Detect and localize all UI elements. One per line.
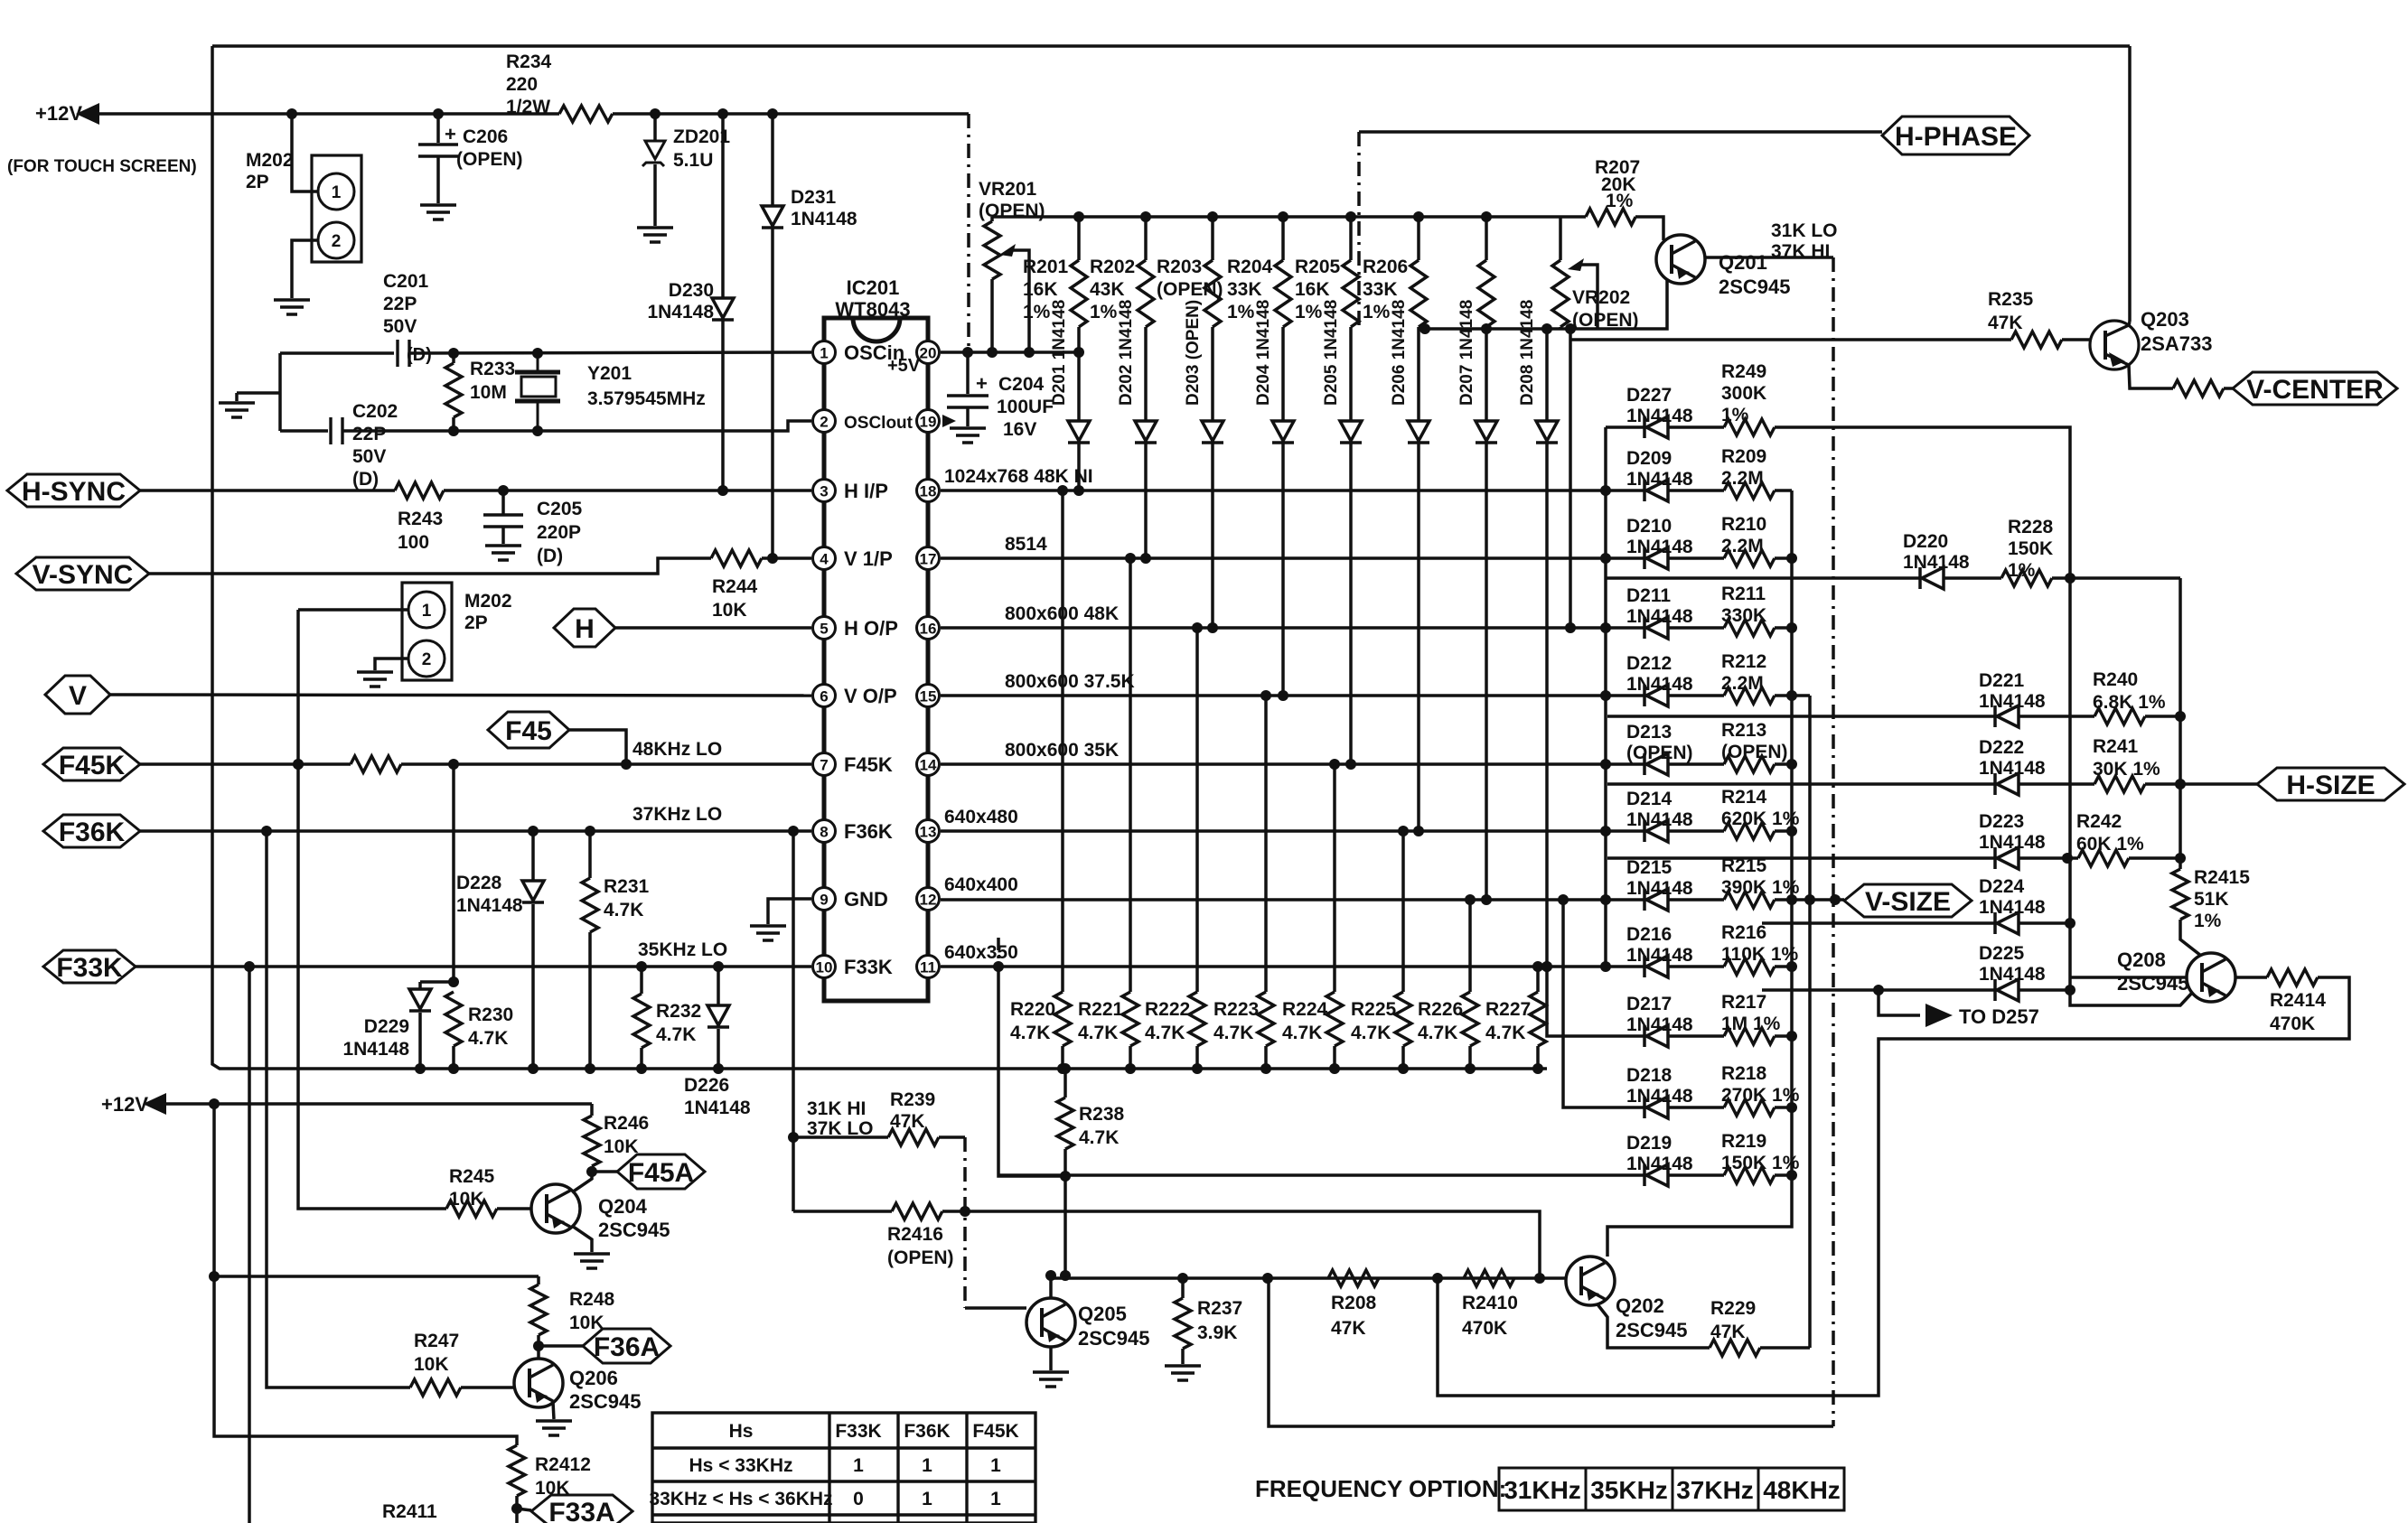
junction bbox=[1481, 323, 1492, 334]
svg-text:7: 7 bbox=[820, 757, 828, 774]
svg-text:F45K: F45K bbox=[844, 753, 893, 776]
svg-text:D227: D227 bbox=[1626, 385, 1672, 406]
wire D223 row bbox=[1607, 856, 1995, 860]
svg-text:+: + bbox=[976, 372, 988, 395]
svg-text:D226: D226 bbox=[684, 1075, 729, 1096]
svg-text:R2416: R2416 bbox=[887, 1224, 943, 1245]
table mode truth table bbox=[652, 1413, 1035, 1523]
wire R238 top bbox=[1063, 1069, 1067, 1098]
wire to H-SIZE bbox=[2145, 782, 2257, 786]
svg-text:R242: R242 bbox=[2076, 811, 2122, 832]
svg-text:1N4148: 1N4148 bbox=[1626, 606, 1693, 627]
diode D227 bbox=[1644, 416, 1668, 438]
wire R244 to pin 4 bbox=[762, 556, 811, 560]
resistor R202 bbox=[1138, 260, 1154, 327]
svg-text:R230: R230 bbox=[468, 1004, 513, 1025]
svg-text:R220: R220 bbox=[1010, 999, 1055, 1020]
junction (bus) bbox=[1532, 1063, 1543, 1074]
junction bbox=[585, 826, 595, 836]
svg-text:1N4148: 1N4148 bbox=[1903, 552, 1970, 573]
wire OSCin row left bbox=[280, 351, 394, 355]
svg-text:4.7K: 4.7K bbox=[1351, 1023, 1391, 1043]
svg-text:D207 1N4148: D207 1N4148 bbox=[1457, 300, 1476, 406]
wire row D210 start bbox=[1606, 556, 1644, 560]
wire R221 bottom bbox=[1129, 1046, 1132, 1069]
wire Q206 emitter bbox=[553, 1402, 554, 1419]
svg-text:1N4148: 1N4148 bbox=[342, 1039, 409, 1060]
wire R2416 in bbox=[793, 1210, 892, 1213]
wire D219 row (long) bbox=[998, 1173, 1644, 1177]
junction bbox=[1541, 961, 1552, 972]
junction bbox=[448, 1063, 459, 1074]
svg-text:4.7K: 4.7K bbox=[1078, 1023, 1118, 1043]
svg-text:640x480: 640x480 bbox=[944, 807, 1018, 827]
svg-text:M202: M202 bbox=[464, 591, 512, 612]
svg-text:GND: GND bbox=[844, 888, 888, 911]
resistor R248 bbox=[530, 1285, 547, 1335]
svg-text:FREQUENCY OPTION:: FREQUENCY OPTION: bbox=[1255, 1475, 1506, 1502]
resistor R243 bbox=[395, 482, 444, 499]
svg-text:Q205: Q205 bbox=[1078, 1303, 1127, 1325]
pin 18 bbox=[917, 480, 940, 502]
wire R218 out bbox=[1775, 1106, 1792, 1109]
wire R247 to Q206 base bbox=[461, 1386, 514, 1389]
junction (bus) bbox=[1329, 1063, 1340, 1074]
wire select to R208 node bbox=[1269, 1278, 1833, 1426]
svg-text:R232: R232 bbox=[656, 1001, 701, 1022]
wire D219 to R219 bbox=[1668, 1173, 1724, 1177]
svg-text:4.7K: 4.7K bbox=[1010, 1023, 1050, 1043]
svg-text:4.7K: 4.7K bbox=[604, 900, 643, 920]
junction (R22x top) bbox=[1398, 826, 1409, 836]
svg-text:48KHz LO: 48KHz LO bbox=[632, 739, 722, 760]
wire D212 to R212 bbox=[1668, 694, 1724, 697]
wire row D213 start bbox=[1606, 762, 1644, 766]
junction bbox=[987, 347, 998, 358]
resistor R241 bbox=[2094, 776, 2145, 792]
junction bbox=[1060, 1270, 1071, 1281]
diode D207 bbox=[1476, 421, 1497, 443]
wire D227 to R249 bbox=[1668, 425, 1724, 429]
pin 2 OSClout bbox=[813, 410, 836, 433]
svg-text:R209: R209 bbox=[1721, 446, 1766, 467]
wire D220 row left bbox=[1606, 576, 1920, 580]
svg-text:R208: R208 bbox=[1331, 1293, 1377, 1313]
junction bbox=[993, 961, 1004, 972]
junction (R22x top) bbox=[1532, 961, 1543, 972]
wire R217 out bbox=[1775, 1034, 1792, 1038]
wire R210 out bbox=[1775, 556, 1792, 560]
junction (right rail) bbox=[1786, 690, 1797, 701]
junction bbox=[511, 1503, 522, 1514]
svg-text:R227: R227 bbox=[1485, 999, 1531, 1020]
wire row D214 start bbox=[1606, 829, 1644, 833]
wire R219 out bbox=[1775, 1173, 1792, 1177]
junction bbox=[717, 108, 728, 119]
wire ladder left rail bbox=[1604, 427, 1607, 967]
junction (right rail) bbox=[1786, 553, 1797, 564]
wire R232 top bbox=[640, 967, 643, 994]
svg-text:H I/P: H I/P bbox=[844, 480, 888, 502]
svg-text:1%: 1% bbox=[1227, 302, 1255, 322]
resistor R223 bbox=[1258, 992, 1274, 1046]
wire osc left stub bbox=[278, 353, 282, 431]
ground (Q206) bbox=[536, 1421, 572, 1435]
svg-text:4.7K: 4.7K bbox=[468, 1028, 508, 1049]
wire Q208 emitter to D225 node bbox=[2070, 990, 2193, 1005]
svg-text:D229: D229 bbox=[364, 1016, 409, 1037]
wire R245 to Q204 base bbox=[497, 1207, 531, 1210]
svg-text:F45A: F45A bbox=[628, 1158, 694, 1188]
resistor R2415 bbox=[2172, 869, 2188, 920]
svg-text:1%: 1% bbox=[1363, 302, 1391, 322]
pin 11 bbox=[917, 956, 940, 978]
svg-text:Y201: Y201 bbox=[587, 363, 632, 384]
junction (column to row) bbox=[1481, 894, 1492, 905]
svg-text:D209: D209 bbox=[1626, 448, 1672, 469]
svg-text:R225: R225 bbox=[1351, 999, 1397, 1020]
svg-text:VR201: VR201 bbox=[979, 179, 1037, 200]
ground (pin 9) bbox=[750, 926, 786, 940]
diode D203 bbox=[1202, 421, 1223, 443]
junction (R22x top) bbox=[1260, 690, 1271, 701]
resistor R215 bbox=[1724, 892, 1775, 908]
svg-text:1N4148: 1N4148 bbox=[1979, 964, 2046, 985]
wire column 3 bottom bbox=[1211, 327, 1214, 628]
junction bbox=[528, 1063, 539, 1074]
svg-text:6: 6 bbox=[820, 688, 828, 705]
transistor Q208 symbol bbox=[2187, 953, 2235, 1002]
resistor R2412 bbox=[509, 1445, 525, 1496]
pin 7 F45K bbox=[813, 753, 836, 776]
junction bbox=[960, 1206, 970, 1217]
svg-text:D219: D219 bbox=[1626, 1133, 1672, 1154]
wire R212 out bbox=[1775, 694, 1792, 697]
junction (bus) bbox=[1481, 211, 1492, 222]
flag F45K bbox=[43, 748, 140, 780]
svg-text:(OPEN): (OPEN) bbox=[456, 149, 523, 170]
wire to R235 bbox=[1570, 338, 2011, 341]
wire VR202 row to Q201 base bbox=[1420, 280, 1667, 329]
svg-text:R2412: R2412 bbox=[535, 1454, 591, 1475]
svg-text:F33A: F33A bbox=[548, 1498, 614, 1523]
junction (bus) bbox=[1413, 211, 1424, 222]
wire Q205 base select bbox=[963, 1137, 967, 1308]
wire column 2 top bbox=[1144, 217, 1148, 260]
junction bbox=[293, 759, 304, 770]
ground (M202 bottom) bbox=[357, 672, 393, 687]
svg-text:D222: D222 bbox=[1979, 737, 2024, 758]
svg-text:D220: D220 bbox=[1903, 531, 1948, 552]
svg-text:(OPEN): (OPEN) bbox=[887, 1247, 954, 1268]
junction (bus) bbox=[1260, 1063, 1271, 1074]
diode D220 bbox=[1920, 567, 1944, 589]
junction bbox=[1060, 1063, 1071, 1074]
wire left drop to R2412 bbox=[214, 1104, 517, 1445]
svg-text:+: + bbox=[445, 123, 456, 145]
diode D208 bbox=[1536, 421, 1558, 443]
svg-text:270K 1%: 270K 1% bbox=[1721, 1085, 1800, 1106]
wire C204 bottom bbox=[966, 407, 970, 426]
diode D210 bbox=[1644, 547, 1668, 569]
wire H to pin 5 bbox=[615, 626, 811, 630]
svg-text:1: 1 bbox=[820, 345, 828, 362]
svg-text:R240: R240 bbox=[2093, 669, 2138, 690]
svg-text:3.9K: 3.9K bbox=[1197, 1322, 1237, 1343]
svg-text:1: 1 bbox=[853, 1455, 864, 1476]
wire R225 bottom bbox=[1401, 1046, 1405, 1069]
svg-text:(D): (D) bbox=[537, 546, 563, 566]
svg-text:R201: R201 bbox=[1023, 257, 1069, 277]
svg-text:33K: 33K bbox=[1363, 279, 1398, 300]
svg-text:D230: D230 bbox=[669, 280, 714, 301]
junction (right rail) bbox=[1786, 622, 1797, 633]
junction (column to row) bbox=[1278, 690, 1288, 701]
svg-text:60K 1%: 60K 1% bbox=[2076, 834, 2144, 855]
junction bbox=[1804, 894, 1815, 905]
wire R240 out bbox=[2145, 715, 2180, 718]
svg-text:17: 17 bbox=[920, 551, 937, 568]
wire row y=770 bbox=[941, 694, 1606, 697]
junction bbox=[2062, 853, 2073, 864]
wire R225 top bbox=[1401, 831, 1405, 992]
svg-text:D206 1N4148: D206 1N4148 bbox=[1390, 300, 1409, 406]
wire M202 pin2 to ground bbox=[292, 240, 318, 298]
wire D222 row bbox=[1607, 782, 1995, 786]
VR201 wiper arrow bbox=[999, 244, 1016, 257]
svg-text:1%: 1% bbox=[1721, 405, 1749, 425]
diode D222 bbox=[1995, 773, 2019, 795]
svg-text:330K: 330K bbox=[1721, 605, 1766, 626]
diode D230 bbox=[712, 298, 734, 320]
resistor R209 bbox=[1724, 482, 1775, 499]
wire left border and bottom bus bbox=[212, 46, 1547, 1069]
svg-text:31KHz: 31KHz bbox=[1504, 1476, 1581, 1504]
svg-text:R219: R219 bbox=[1721, 1131, 1766, 1152]
svg-text:H: H bbox=[575, 614, 595, 644]
junction bbox=[788, 1132, 799, 1143]
junction bbox=[209, 1271, 220, 1282]
svg-text:D214: D214 bbox=[1626, 789, 1672, 809]
svg-text:R249: R249 bbox=[1721, 361, 1766, 382]
resistor R244 bbox=[711, 550, 762, 566]
svg-text:H-SYNC: H-SYNC bbox=[22, 477, 126, 507]
svg-text:D231: D231 bbox=[791, 187, 837, 208]
svg-text:(OPEN): (OPEN) bbox=[1626, 743, 1693, 763]
ground (R237) bbox=[1165, 1366, 1201, 1380]
svg-text:V-CENTER: V-CENTER bbox=[2246, 375, 2384, 405]
junction (bus) bbox=[1345, 211, 1356, 222]
wire R220 top bbox=[1061, 491, 1064, 992]
svg-text:F45K: F45K bbox=[972, 1421, 1018, 1442]
wire R232 bottom bbox=[640, 1048, 643, 1069]
junction bbox=[448, 976, 459, 987]
wire to F33A bbox=[517, 1509, 531, 1510]
svg-text:1: 1 bbox=[922, 1455, 932, 1476]
junction bbox=[1073, 347, 1084, 358]
svg-text:R205: R205 bbox=[1295, 257, 1341, 277]
svg-text:300K: 300K bbox=[1721, 383, 1766, 404]
wire column 5 top bbox=[1349, 217, 1353, 260]
svg-text:31K HI: 31K HI bbox=[807, 1098, 866, 1119]
wire +12V rail left bbox=[98, 112, 559, 116]
flag F36K bbox=[43, 815, 140, 847]
wire F33K drop (long) bbox=[248, 967, 251, 1523]
wire D221 to R240 bbox=[2019, 715, 2094, 718]
svg-text:2SC945: 2SC945 bbox=[598, 1219, 670, 1241]
svg-text:47K: 47K bbox=[1710, 1322, 1746, 1342]
svg-text:2: 2 bbox=[332, 232, 342, 251]
resistor R239 bbox=[888, 1129, 939, 1145]
wire R228 out bbox=[2052, 576, 2180, 580]
svg-text:31K LO: 31K LO bbox=[1771, 220, 1838, 241]
resistor R211 bbox=[1724, 620, 1775, 636]
junction (bus) bbox=[1125, 1063, 1136, 1074]
wire D214 to R214 bbox=[1668, 829, 1724, 833]
flag F36A bbox=[583, 1329, 670, 1363]
wire R239 in bbox=[793, 1135, 888, 1139]
svg-text:R204: R204 bbox=[1227, 257, 1273, 277]
svg-text:50V: 50V bbox=[352, 446, 386, 467]
svg-text:33K: 33K bbox=[1227, 279, 1262, 300]
svg-text:M202: M202 bbox=[246, 150, 294, 171]
wire row D209 start bbox=[1606, 489, 1644, 492]
svg-text:C202: C202 bbox=[352, 401, 398, 422]
svg-text:1: 1 bbox=[990, 1455, 1001, 1476]
junction bbox=[209, 1098, 220, 1109]
svg-text:D210: D210 bbox=[1626, 516, 1672, 537]
junction bbox=[448, 759, 459, 770]
resistor R229 bbox=[1710, 1340, 1760, 1356]
svg-text:1M 1%: 1M 1% bbox=[1721, 1014, 1781, 1034]
svg-text:D216: D216 bbox=[1626, 924, 1672, 945]
wire row996 to V-SIZE bbox=[1792, 898, 1844, 902]
svg-text:WT8043: WT8043 bbox=[835, 298, 910, 321]
wire R224 top bbox=[1333, 764, 1336, 992]
svg-text:F45K: F45K bbox=[59, 751, 126, 780]
svg-text:V-SYNC: V-SYNC bbox=[33, 560, 134, 590]
junction bbox=[650, 108, 661, 119]
wire D230 column bbox=[721, 114, 725, 491]
junction bbox=[1262, 1273, 1273, 1284]
junction bbox=[532, 425, 543, 436]
wire to V-CENTER bbox=[2224, 387, 2233, 390]
wire C204 top bbox=[966, 352, 970, 394]
wire R223 top bbox=[1264, 696, 1268, 992]
resistor R2410 bbox=[1464, 1270, 1514, 1286]
svg-text:2P: 2P bbox=[464, 612, 488, 633]
junction bbox=[1600, 826, 1611, 836]
svg-text:R233: R233 bbox=[470, 359, 515, 379]
pin 17 bbox=[917, 547, 940, 570]
svg-text:4.7K: 4.7K bbox=[1485, 1023, 1525, 1043]
wire +5V node row bbox=[941, 350, 1079, 354]
diode D206 bbox=[1408, 421, 1429, 443]
junction bbox=[2175, 853, 2186, 864]
wire F36K drop bbox=[792, 831, 795, 1211]
svg-text:2SC945: 2SC945 bbox=[1616, 1319, 1688, 1341]
svg-text:R245: R245 bbox=[449, 1166, 495, 1187]
wire F45 drop bbox=[569, 730, 626, 764]
wire right border drop to Q203 bbox=[2128, 46, 2132, 322]
wire Q208 base bbox=[2070, 976, 2187, 979]
svg-text:+12V: +12V bbox=[35, 102, 82, 125]
junction bbox=[1600, 622, 1611, 633]
svg-text:16K: 16K bbox=[1023, 279, 1058, 300]
svg-text:1N4148: 1N4148 bbox=[1626, 674, 1693, 695]
wire OSCout row left bbox=[280, 429, 328, 433]
flag F33K bbox=[43, 950, 136, 983]
svg-text:51K: 51K bbox=[2194, 889, 2229, 910]
ground (C206) bbox=[420, 205, 456, 220]
svg-text:1N4148: 1N4148 bbox=[1626, 406, 1693, 426]
svg-text:2.2M: 2.2M bbox=[1721, 468, 1764, 489]
svg-text:640x400: 640x400 bbox=[944, 874, 1018, 895]
wire Q203 collector bbox=[2129, 322, 2130, 325]
wire C205 top bbox=[501, 491, 505, 515]
resistor R240 bbox=[2094, 708, 2145, 724]
pin 14 bbox=[917, 753, 940, 776]
svg-text:D224: D224 bbox=[1979, 876, 2025, 897]
svg-text:4.7K: 4.7K bbox=[1079, 1127, 1119, 1148]
svg-text:8: 8 bbox=[820, 824, 828, 841]
diode D215 bbox=[1644, 889, 1668, 911]
wire R237 bottom bbox=[1181, 1349, 1185, 1364]
pin 15 bbox=[917, 685, 940, 707]
diode D231 bbox=[762, 206, 783, 228]
wire VR201 wiper bbox=[1012, 250, 1029, 352]
svg-text:D212: D212 bbox=[1626, 653, 1672, 674]
svg-text:R223: R223 bbox=[1213, 999, 1259, 1020]
svg-text:R221: R221 bbox=[1078, 999, 1124, 1020]
junction bbox=[2175, 711, 2186, 722]
svg-text:14: 14 bbox=[920, 757, 937, 774]
svg-text:1%: 1% bbox=[2008, 560, 2036, 581]
junction bbox=[1600, 894, 1611, 905]
wire R2415 to Q208 bbox=[2180, 920, 2201, 956]
ground (ZD201) bbox=[637, 228, 673, 242]
resistor R232 bbox=[633, 994, 650, 1048]
svg-text:F33K: F33K bbox=[835, 1421, 881, 1442]
svg-text:+12V: +12V bbox=[101, 1093, 148, 1116]
wire D231 column bbox=[771, 114, 774, 558]
junction bbox=[713, 961, 724, 972]
transistor Q203 (PNP 2SA733) bbox=[2090, 321, 2139, 369]
wire F33K to pin 10 bbox=[136, 965, 811, 968]
wire R224 bottom bbox=[1333, 1046, 1336, 1069]
pin 6 V O/P bbox=[813, 685, 836, 707]
svg-text:43K: 43K bbox=[1090, 279, 1125, 300]
wire row D211 start bbox=[1606, 626, 1644, 630]
junction bbox=[433, 108, 444, 119]
wire row y=1070 bbox=[941, 965, 1606, 968]
flag V-SYNC bbox=[16, 557, 149, 590]
wire C205 bottom bbox=[501, 527, 505, 544]
svg-text:Hs < 33KHz: Hs < 33KHz bbox=[689, 1455, 793, 1476]
svg-text:620K 1%: 620K 1% bbox=[1721, 808, 1800, 829]
wire ZD201 bottom bbox=[653, 164, 657, 226]
pin 13 bbox=[917, 820, 940, 843]
wire M202b pin2 to ground bbox=[375, 659, 408, 670]
svg-text:Q201: Q201 bbox=[1719, 251, 1767, 274]
junction bbox=[1873, 985, 1884, 995]
svg-text:37KHz LO: 37KHz LO bbox=[632, 804, 722, 825]
svg-text:16V: 16V bbox=[1003, 419, 1036, 440]
ground (M202 top) bbox=[274, 300, 310, 314]
wire R2416 out to Q202 base node bbox=[942, 1211, 1540, 1278]
wire D211 to R211 bbox=[1668, 626, 1724, 630]
svg-text:R243: R243 bbox=[398, 509, 443, 529]
